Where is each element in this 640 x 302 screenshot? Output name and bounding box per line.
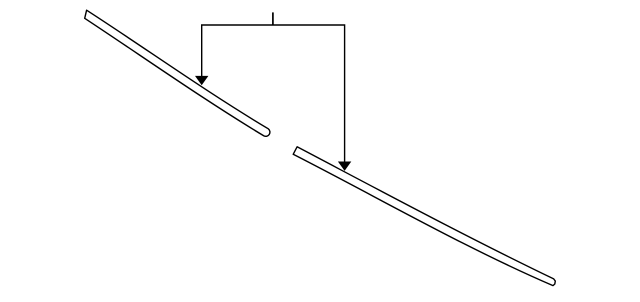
callout bracket xyxy=(202,25,345,164)
part 1 upper moulding strip xyxy=(85,10,270,136)
arrowhead to lower strip xyxy=(338,162,351,171)
part 1 lower moulding strip xyxy=(293,147,555,286)
arrowhead to upper strip xyxy=(195,76,208,85)
callout tick label 1 xyxy=(272,12,274,25)
